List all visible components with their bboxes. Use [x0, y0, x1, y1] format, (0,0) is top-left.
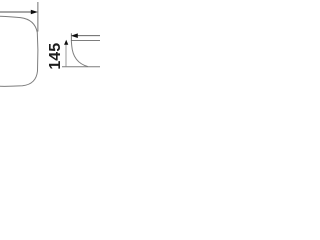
wire: vertical dimension shaft 145 [65, 43, 67, 66]
side-view bottom line [62, 66, 100, 68]
svg-text:145: 145 [47, 43, 64, 70]
arrowhead up [64, 40, 68, 45]
wire: extension line right of top view [37, 2, 39, 32]
side-view rim line [71, 40, 100, 42]
arrowhead right [31, 10, 38, 15]
basin top-view outline [0, 16, 38, 86]
wire: width dimension line (left drawing) [0, 11, 32, 13]
side-view front profile curve [71, 41, 88, 67]
wire: horizontal dimension line (side view) [77, 35, 101, 37]
wire: extension line above side view corner [70, 33, 72, 40]
arrowhead left [71, 33, 78, 38]
